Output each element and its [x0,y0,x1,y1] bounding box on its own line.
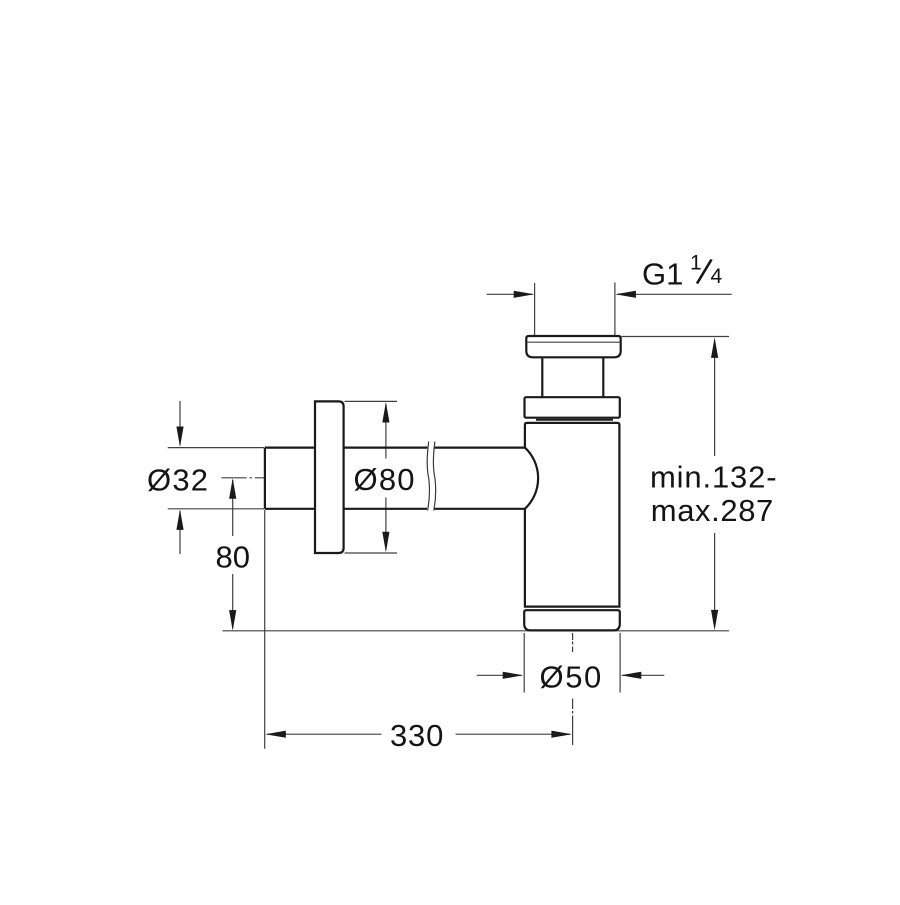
wire: 330 left extension line (from wall) [264,510,266,749]
baseline (wall datum line at bottom) [222,630,729,632]
wall flange (escutcheon) [315,401,344,553]
svg-text:330: 330 [390,718,444,753]
dimension Ø32 lower arrow (pointing up) [176,509,183,554]
wire: min/max top extension line [622,336,730,338]
svg-text:min.132-: min.132- [650,460,777,495]
dimension min.132-max.287 vertical line with arrows [711,337,718,630]
pipe end cap arc inside body [525,448,538,509]
wire: G1 1/4 left extension line [534,283,536,336]
horizontal inlet pipe [265,448,525,509]
wire: G1 1/4 right extension line [614,283,616,337]
svg-text:4: 4 [711,265,723,288]
dimension Ø32 upper arrow (pointing down) [176,401,183,447]
dimension 80 vertical line with arrows [229,478,236,630]
wire: Ø80 bottom extension line [345,552,397,554]
dimension Ø50 right arrow (pointing left) [621,672,665,679]
trap body (cup) [525,423,620,607]
svg-text:G1: G1 [642,257,683,292]
svg-text:80: 80 [216,539,250,574]
dimension Ø50 left arrow (pointing right) [477,672,523,679]
dimension G1 1/4 left arrow [487,291,535,298]
label G1 1/4 [642,252,723,292]
wire: Ø80 top extension line [345,400,397,402]
svg-text:Ø32: Ø32 [147,462,209,497]
threaded neck [542,357,603,397]
inlet flange (top rim) [526,336,620,357]
wire: Ø32 upper extension line [168,447,264,449]
bottom cap of trap body [524,610,620,630]
union nut [525,397,620,418]
centerline of trap body (dash-dot, below) [572,633,574,652]
dimension Ø80 vertical line with arrows [382,402,389,552]
svg-text:1: 1 [690,252,702,275]
svg-text:Ø80: Ø80 [354,462,416,497]
wire: Ø50 right extension line [619,633,621,693]
dimension 330 line with arrows [265,731,572,738]
wire: Ø32 lower extension line [168,508,264,510]
svg-text:max.287: max.287 [651,493,774,528]
inlet flange inner line [527,341,620,343]
svg-text:Ø50: Ø50 [540,660,603,695]
centerline of pipe (dash-dot) [222,477,265,479]
label min.132-max.287 [650,460,777,528]
dimension G1 1/4 right arrow [615,291,731,298]
wire: Ø50 left extension line [523,633,525,693]
pipe break symbol [427,442,435,511]
gasket line [536,419,613,421]
